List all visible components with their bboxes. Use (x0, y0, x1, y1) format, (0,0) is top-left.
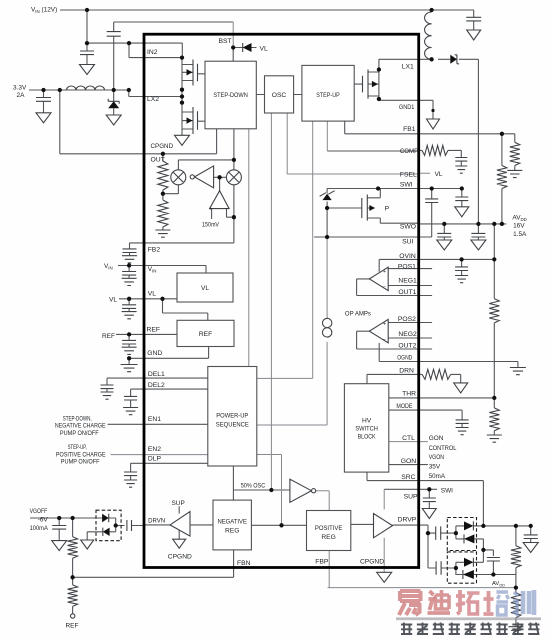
svg-text:-6V: -6V (38, 516, 49, 523)
svg-text:POS1: POS1 (398, 263, 416, 270)
svg-text:2A: 2A (17, 92, 26, 99)
svg-text:GON: GON (401, 458, 417, 465)
svg-text:VGON: VGON (429, 454, 445, 461)
svg-text:CPGND: CPGND (151, 143, 174, 150)
svg-text:DRVN: DRVN (148, 518, 165, 525)
svg-text:DRVP: DRVP (398, 517, 417, 524)
svg-text:3.3V: 3.3V (13, 85, 27, 92)
svg-text:OGND: OGND (397, 355, 412, 362)
svg-text:FSEL: FSEL (400, 171, 417, 178)
svg-text:DLP: DLP (148, 455, 162, 462)
svg-text:STEP-UP,: STEP-UP, (68, 444, 87, 451)
svg-text:EN1: EN1 (148, 416, 161, 423)
svg-text:CPGND: CPGND (360, 559, 384, 566)
svg-text:IN2: IN2 (147, 49, 158, 56)
svg-text:REF: REF (102, 333, 115, 340)
svg-text:VL: VL (201, 285, 209, 292)
svg-text:VIN​ (12V): VIN​ (12V) (31, 7, 57, 14)
svg-text:SUP: SUP (172, 500, 185, 507)
svg-text:VL: VL (260, 45, 269, 52)
svg-text:NEG1: NEG1 (398, 278, 417, 285)
svg-text:OSC: OSC (272, 92, 287, 99)
svg-text:1.5A: 1.5A (513, 231, 527, 238)
svg-text:SWI: SWI (441, 487, 453, 494)
svg-text:POSITIVE CHARGE: POSITIVE CHARGE (56, 451, 106, 458)
svg-text:VL: VL (109, 297, 117, 304)
svg-text:PUMP ON/OFF: PUMP ON/OFF (61, 459, 100, 466)
svg-text:DRN: DRN (399, 368, 414, 375)
svg-text:DEL1: DEL1 (148, 371, 165, 378)
svg-text:−: − (225, 206, 228, 212)
svg-text:STEP-DOWN: STEP-DOWN (213, 92, 248, 99)
svg-text:FBP: FBP (315, 558, 329, 565)
svg-text:OP AMPs: OP AMPs (345, 311, 371, 318)
svg-text:GND: GND (147, 350, 162, 357)
svg-text:P: P (385, 206, 390, 213)
svg-text:REF: REF (147, 327, 161, 334)
svg-text:BLOCK: BLOCK (358, 433, 376, 440)
svg-text:EN2: EN2 (148, 446, 161, 453)
svg-text:DEL2: DEL2 (148, 382, 165, 389)
svg-text:COMP: COMP (400, 148, 419, 155)
svg-text:SUI: SUI (402, 239, 413, 246)
svg-text:SRC: SRC (401, 474, 415, 481)
svg-text:AVDD​: AVDD​ (492, 581, 505, 587)
svg-text:REF: REF (66, 623, 79, 630)
svg-text:150mV: 150mV (202, 222, 220, 229)
svg-text:SWITCH: SWITCH (355, 425, 378, 432)
svg-text:NEG2: NEG2 (398, 331, 417, 338)
svg-text:FBN: FBN (237, 560, 251, 567)
svg-text:NEGATIVE: NEGATIVE (217, 519, 247, 526)
svg-text:OUT2: OUT2 (398, 342, 416, 349)
svg-text:SWI: SWI (400, 181, 413, 188)
svg-text:FB2: FB2 (148, 246, 161, 253)
svg-text:HV: HV (362, 417, 372, 424)
svg-text:VL: VL (435, 171, 443, 178)
svg-text:GND1: GND1 (399, 104, 415, 111)
svg-text:REG: REG (321, 534, 335, 541)
svg-text:16V: 16V (513, 223, 525, 230)
svg-text:LX2: LX2 (147, 96, 159, 103)
svg-text:MODE: MODE (396, 403, 412, 410)
svg-text:STEP-DOWN,: STEP-DOWN, (63, 415, 92, 422)
svg-text:LX1: LX1 (402, 64, 414, 71)
svg-text:GON: GON (429, 435, 444, 442)
svg-text:VGOFF: VGOFF (30, 508, 48, 515)
svg-text:SWO: SWO (400, 224, 416, 231)
svg-text:BST: BST (219, 38, 232, 45)
svg-text:100mA: 100mA (30, 525, 49, 532)
svg-text:CTL: CTL (402, 435, 415, 442)
svg-text:FB1: FB1 (403, 126, 416, 133)
svg-text:POS2: POS2 (398, 316, 416, 323)
svg-text:CONTROL: CONTROL (429, 445, 457, 452)
svg-text:+: + (209, 206, 212, 212)
svg-text:50% OSC: 50% OSC (241, 483, 266, 490)
svg-text:−: − (383, 285, 386, 291)
svg-text:OUT1: OUT1 (398, 289, 416, 296)
svg-text:PUMP ON/OFF: PUMP ON/OFF (60, 430, 99, 437)
svg-text:REG: REG (225, 528, 239, 535)
svg-text:OVIN: OVIN (399, 253, 416, 260)
svg-text:CPGND: CPGND (168, 553, 192, 560)
svg-text:50mA: 50mA (429, 473, 446, 480)
svg-text:35V: 35V (429, 464, 441, 471)
svg-text:SEQUENCE: SEQUENCE (216, 422, 249, 429)
svg-text:−: − (383, 337, 386, 343)
svg-text:STEP-UP: STEP-UP (316, 92, 340, 99)
svg-text:OUT: OUT (151, 156, 165, 163)
svg-text:REF: REF (199, 331, 212, 338)
svg-text:POSITIVE: POSITIVE (315, 525, 343, 532)
svg-text:VL: VL (148, 290, 157, 297)
svg-text:+: + (383, 269, 386, 275)
svg-text:NEGATIVE CHARGE: NEGATIVE CHARGE (55, 423, 106, 430)
svg-text:POWER-UP: POWER-UP (216, 413, 248, 420)
svg-text:THR: THR (402, 390, 416, 397)
svg-text:SUP: SUP (404, 494, 418, 501)
svg-text:+: + (383, 321, 386, 327)
